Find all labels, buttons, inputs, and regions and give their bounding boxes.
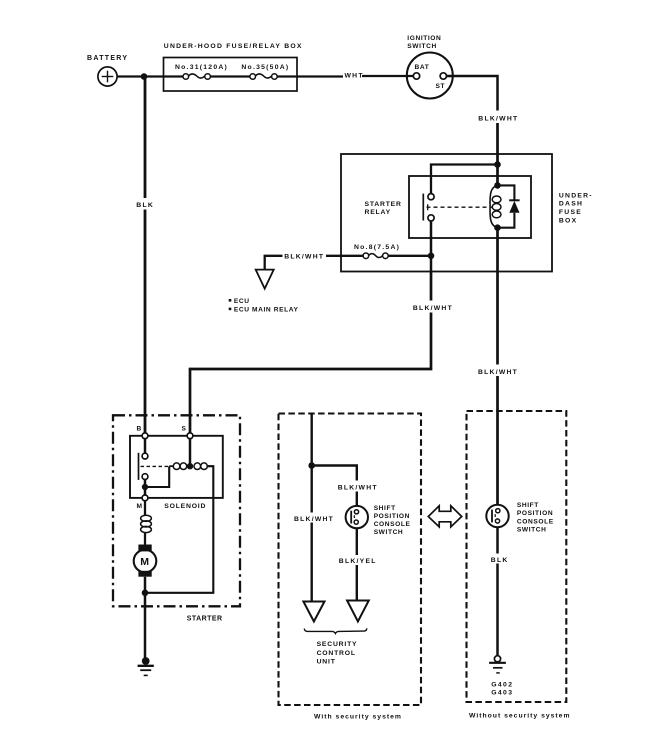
diode D xyxy=(498,185,515,200)
svg-text:ST: ST xyxy=(436,83,446,90)
svg-text:BLK/WHT: BLK/WHT xyxy=(413,305,453,312)
wire BLK/WHT from fuse row down to starter S xyxy=(430,272,433,301)
node starter bottom junction xyxy=(142,590,149,597)
svg-text:Without security system: Without security system xyxy=(469,713,571,720)
node under-dash top junction xyxy=(494,161,501,168)
node fuse row junction xyxy=(428,253,435,260)
solenoid contact bottom xyxy=(142,474,148,480)
svg-text:SHIFT: SHIFT xyxy=(374,505,396,512)
svg-text:IGNITION: IGNITION xyxy=(407,35,441,42)
svg-text:FUSE: FUSE xyxy=(559,209,582,216)
solenoid dashed link xyxy=(141,465,170,467)
brace xyxy=(304,628,367,633)
svg-text:BAT: BAT xyxy=(415,64,430,71)
battery xyxy=(98,67,117,86)
wire to ECU arrow xyxy=(265,256,283,270)
svg-text:WHT: WHT xyxy=(345,73,364,80)
svg-text:BLK: BLK xyxy=(136,202,154,209)
svg-text:G403: G403 xyxy=(491,689,513,696)
wire to relay contact xyxy=(431,165,498,194)
svg-text:G402: G402 xyxy=(491,681,513,688)
node coil bottom xyxy=(494,224,501,231)
svg-text:No.35(50A): No.35(50A) xyxy=(241,64,289,71)
relay dashed link xyxy=(427,206,493,208)
svg-text:BLK/WHT: BLK/WHT xyxy=(294,516,334,523)
ignition switch xyxy=(407,53,453,99)
svg-text:UNDER-: UNDER- xyxy=(559,192,593,199)
wire B to contact xyxy=(144,439,147,454)
solenoid lever xyxy=(138,453,140,480)
motor brush bottom xyxy=(138,571,151,577)
ground starter xyxy=(142,657,150,665)
connector arrow right (security control unit) xyxy=(347,601,369,622)
terminal M xyxy=(142,495,148,501)
wire left branch xyxy=(311,414,313,513)
svg-text:B: B xyxy=(137,426,142,433)
wire BLK vertical battery to starter B xyxy=(144,77,147,199)
terminal S xyxy=(187,433,193,439)
shift position console switch (without security) xyxy=(486,505,508,527)
svg-text:POSITION: POSITION xyxy=(517,510,553,517)
svg-text:BATTERY: BATTERY xyxy=(87,55,128,62)
node BM junction xyxy=(142,484,148,490)
svg-text:S: S xyxy=(182,426,187,433)
hold-in coil xyxy=(194,463,201,470)
svg-text:SECURITY: SECURITY xyxy=(317,641,358,648)
svg-text:M: M xyxy=(140,556,149,568)
svg-text:POSITION: POSITION xyxy=(374,513,410,520)
svg-text:BLK/WHT: BLK/WHT xyxy=(478,115,518,122)
motor brush top xyxy=(138,545,151,552)
relay lever xyxy=(422,194,424,221)
solenoid contact top xyxy=(142,453,148,459)
node branch junction xyxy=(308,462,315,469)
svg-text:With security system: With security system xyxy=(314,714,402,721)
node battery junction xyxy=(141,73,148,80)
svg-text:RELAY: RELAY xyxy=(365,209,391,216)
node coil top xyxy=(494,182,501,189)
relay contact bottom xyxy=(428,215,434,221)
wire coil return xyxy=(148,466,213,593)
under-hood fuse/relay box xyxy=(164,58,298,92)
wire motor to ground xyxy=(144,577,147,658)
svg-text:SHIFT: SHIFT xyxy=(517,502,539,509)
relay coil L xyxy=(490,185,497,227)
with-security dashed box xyxy=(279,414,422,706)
wire switch down to ground xyxy=(496,527,499,553)
svg-text:No.8(7.5A): No.8(7.5A) xyxy=(354,244,400,251)
wire WHT to ignition switch xyxy=(277,75,343,77)
motor M xyxy=(134,550,157,573)
node S coil junction xyxy=(187,463,193,469)
svg-text:SWITCH: SWITCH xyxy=(374,529,404,536)
without-security dashed box xyxy=(467,411,567,702)
svg-text:STARTER: STARTER xyxy=(365,201,402,208)
svg-text:STARTER: STARTER xyxy=(187,616,223,623)
svg-text:CONSOLE: CONSOLE xyxy=(517,518,554,525)
under-dash fuse box xyxy=(341,154,552,272)
connector arrow left (security control unit) xyxy=(303,602,324,622)
svg-text:BLK: BLK xyxy=(491,557,509,564)
shift position console switch (with security) xyxy=(346,506,368,528)
svg-text:BLK/WHT: BLK/WHT xyxy=(284,254,324,261)
label ECU list xyxy=(229,299,232,310)
wire junction to pull-in coil xyxy=(145,466,169,487)
wire switch down xyxy=(356,528,358,555)
wire xyxy=(496,123,499,185)
wire S to coil junction xyxy=(189,439,192,467)
svg-text:DASH: DASH xyxy=(559,201,583,208)
pull-in coil xyxy=(173,463,180,470)
terminal B xyxy=(142,433,148,439)
svg-text:M: M xyxy=(137,503,143,510)
svg-text:UNIT: UNIT xyxy=(317,659,336,666)
solenoid box xyxy=(130,436,223,498)
wire contact to M xyxy=(144,480,147,496)
motor armature coil xyxy=(144,501,146,516)
starter relay box xyxy=(409,176,531,238)
connector arrow to ECU xyxy=(256,270,274,289)
double arrow xyxy=(428,506,461,527)
wire ST to under-dash box xyxy=(447,76,498,111)
main wire under-dash down xyxy=(496,228,499,365)
svg-text:SOLENOID: SOLENOID xyxy=(164,503,206,510)
svg-text:BLK/WHT: BLK/WHT xyxy=(478,369,518,376)
svg-text:BLK/WHT: BLK/WHT xyxy=(338,484,378,491)
svg-text:BOX: BOX xyxy=(559,217,577,224)
svg-text:CONSOLE: CONSOLE xyxy=(374,521,411,528)
wire to shift switch xyxy=(312,466,357,481)
wire relay contact down to fuse row xyxy=(430,221,433,272)
svg-text:ECU MAIN RELAY: ECU MAIN RELAY xyxy=(234,307,299,314)
svg-text:SWITCH: SWITCH xyxy=(517,527,547,534)
svg-text:SWITCH: SWITCH xyxy=(407,43,437,50)
relay contact top xyxy=(428,194,434,200)
wire between fuses xyxy=(210,75,250,77)
svg-text:UNDER-HOOD FUSE/RELAY BOX: UNDER-HOOD FUSE/RELAY BOX xyxy=(164,43,303,50)
svg-text:BLK/YEL: BLK/YEL xyxy=(339,558,377,565)
wire battery to fuse box xyxy=(117,75,183,77)
starter box xyxy=(113,415,240,606)
ground G402 G403 xyxy=(494,656,500,662)
svg-text:No.31(120A): No.31(120A) xyxy=(175,64,228,71)
svg-text:CONTROL: CONTROL xyxy=(317,650,356,657)
relay lever tick xyxy=(427,204,429,210)
svg-text:ECU: ECU xyxy=(234,298,250,305)
